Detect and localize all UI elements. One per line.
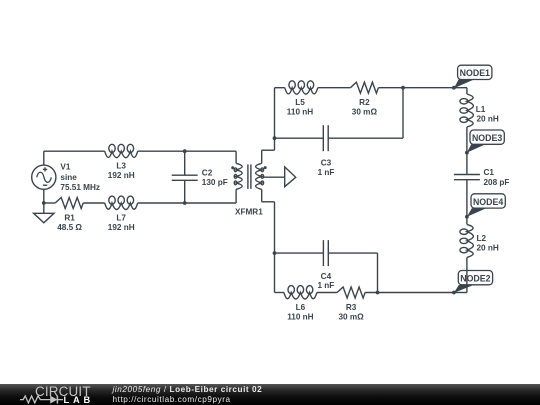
svg-text:R1: R1 (64, 213, 75, 222)
svg-text:L2: L2 (477, 234, 487, 243)
svg-text:L5: L5 (295, 98, 305, 107)
svg-text:192 nH: 192 nH (108, 223, 135, 232)
svg-text:208 pF: 208 pF (484, 178, 510, 187)
svg-text:NODE2: NODE2 (460, 274, 490, 284)
svg-text:L1: L1 (476, 105, 486, 114)
svg-text:1 nF: 1 nF (318, 168, 335, 177)
svg-text:30 mΩ: 30 mΩ (352, 108, 378, 117)
svg-text:V1: V1 (60, 163, 70, 172)
svg-text:L7: L7 (116, 213, 126, 222)
svg-text:C2: C2 (202, 169, 213, 178)
svg-text:XFMR1: XFMR1 (235, 207, 263, 216)
svg-text:130 pF: 130 pF (202, 178, 228, 187)
svg-text:110 nH: 110 nH (287, 108, 313, 117)
svg-text:R3: R3 (346, 303, 357, 312)
svg-text:30 mΩ: 30 mΩ (338, 312, 364, 321)
svg-text:110 nH: 110 nH (287, 312, 313, 321)
svg-text:C1: C1 (484, 168, 495, 177)
svg-text:C4: C4 (321, 272, 332, 281)
svg-text:192 nH: 192 nH (108, 171, 135, 180)
svg-text:48.5 Ω: 48.5 Ω (57, 223, 82, 232)
svg-text:NODE1: NODE1 (460, 68, 490, 78)
svg-text:L6: L6 (296, 303, 306, 312)
svg-text:C3: C3 (321, 158, 332, 167)
svg-text:R2: R2 (359, 98, 370, 107)
svg-text:20 nH: 20 nH (477, 243, 499, 252)
svg-text:NODE4: NODE4 (473, 197, 503, 207)
svg-text:20 nH: 20 nH (477, 114, 499, 123)
svg-text:1 nF: 1 nF (317, 281, 334, 290)
svg-text:NODE3: NODE3 (472, 133, 502, 143)
svg-text:75.51 MHz: 75.51 MHz (60, 183, 100, 192)
svg-text:sine: sine (60, 173, 77, 182)
svg-text:L3: L3 (116, 162, 126, 171)
